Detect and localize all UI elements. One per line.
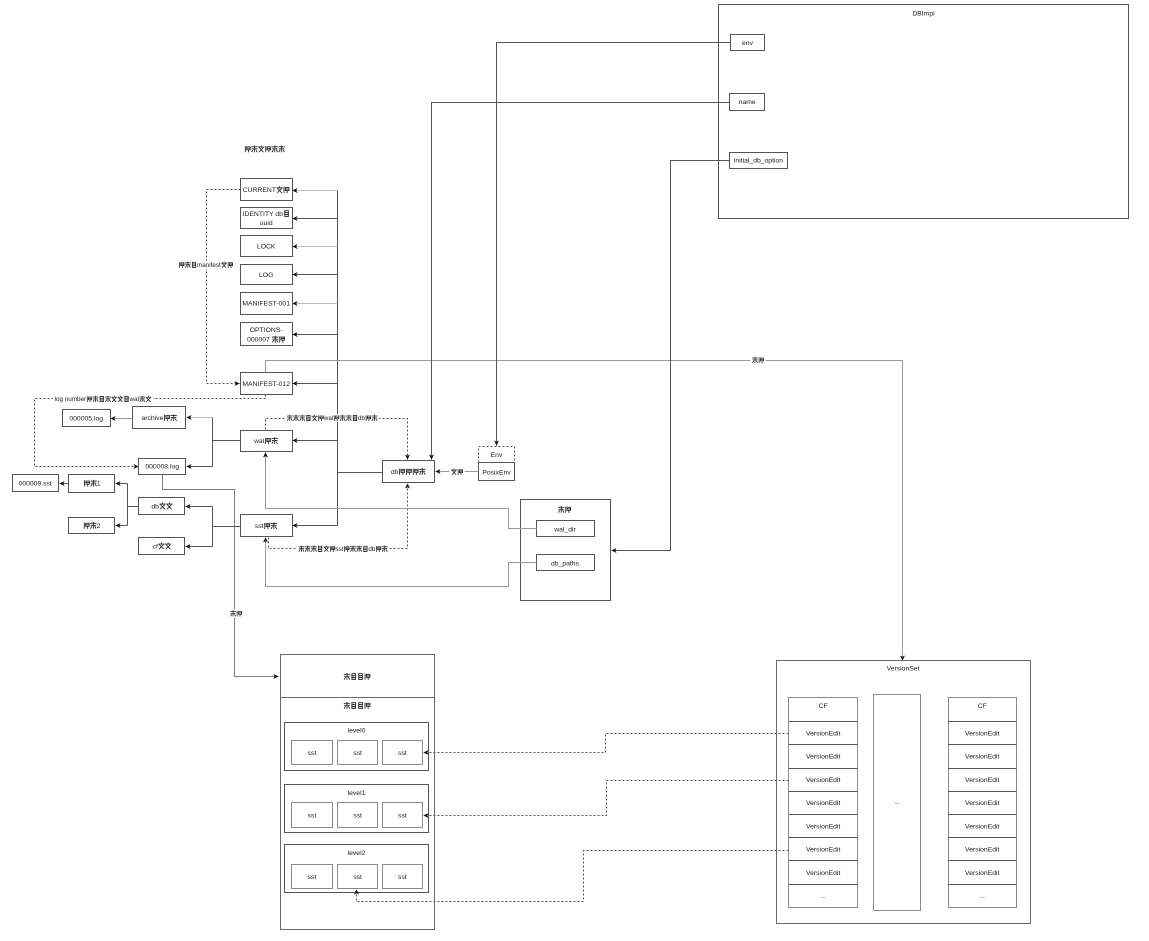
label 内存数据 — [344, 673, 370, 679]
box CF column left — [789, 698, 858, 908]
svg-text:db_paths: db_paths — [551, 560, 580, 567]
wire dashed VersionEdit row6 to level2 sst — [357, 851, 789, 902]
wire db级别 splitter to 目录1 and 目录2 — [116, 484, 139, 526]
wire trunk to db顶层目录 — [338, 472, 383, 474]
svg-text:IDENTITY db: IDENTITY db — [243, 211, 284, 218]
box sst目录 — [241, 515, 293, 537]
box 000009.sst — [13, 475, 59, 492]
svg-text:CURRENT: CURRENT — [243, 187, 276, 194]
svg-text:DBImpl: DBImpl — [912, 11, 935, 18]
wire trunk to IDENTITY — [293, 218, 338, 220]
wire dashed VersionEdit row1 to level0 sst — [424, 734, 789, 753]
box LOCK — [241, 236, 293, 257]
svg-text:db: db — [391, 469, 399, 476]
svg-text:level1: level1 — [348, 790, 366, 797]
svg-text:uuid: uuid — [260, 220, 273, 227]
box VersionSet container — [777, 661, 1031, 924]
box db_paths — [537, 555, 595, 571]
wire trunk to CURRENT文件 — [293, 190, 338, 192]
svg-text:VersionEdit: VersionEdit — [965, 777, 999, 784]
wire trunk to OPTIONS — [293, 334, 338, 336]
svg-text:VersionEdit: VersionEdit — [806, 730, 840, 737]
svg-text:...: ... — [979, 893, 985, 900]
wire 重建 000008.log to 内存数据 — [163, 475, 279, 677]
svg-text:MANIFEST-012: MANIFEST-012 — [242, 381, 290, 388]
box db级别 — [139, 498, 185, 515]
wire archive目录 to 000005.log — [111, 418, 133, 420]
box DBImpl container — [719, 5, 1129, 219]
label 重建 bottom — [228, 610, 243, 618]
box archive目录 — [133, 407, 186, 429]
svg-text:sst: sst — [335, 546, 343, 553]
svg-text:000008.log: 000008.log — [145, 464, 179, 471]
box 目录1 — [69, 475, 115, 493]
wire trunk to MANIFEST-001 — [293, 303, 338, 305]
svg-text:CF: CF — [819, 703, 828, 710]
svg-text:manifest: manifest — [197, 262, 221, 269]
wire wal目录 splitter to archive and 000008.log — [187, 418, 241, 467]
wire trunk to LOCK — [293, 246, 338, 248]
wire dashed MANIFEST-012 to 000008.log — [35, 395, 266, 467]
svg-text:VersionEdit: VersionEdit — [965, 754, 999, 761]
box CURRENT文件 — [241, 179, 293, 201]
wire dashed wal目录 to db顶层目录 — [266, 419, 408, 460]
svg-text:wal: wal — [129, 396, 139, 403]
box 内存数据 container — [281, 655, 435, 930]
svg-text:Env: Env — [491, 452, 503, 459]
wire initial_db_option to 配置 — [612, 161, 730, 551]
svg-text:VersionEdit: VersionEdit — [965, 730, 999, 737]
svg-text:VersionEdit: VersionEdit — [806, 847, 840, 854]
box wal_dir — [537, 521, 595, 537]
svg-text:VersionEdit: VersionEdit — [806, 823, 840, 830]
svg-text:level2: level2 — [348, 850, 366, 857]
svg-text:VersionEdit: VersionEdit — [965, 870, 999, 877]
box middle ... column — [874, 695, 921, 911]
svg-text:env: env — [742, 40, 754, 47]
svg-text:wal_dir: wal_dir — [553, 526, 576, 533]
wire 重建 MANIFEST-012 to VersionSet — [266, 361, 903, 661]
svg-text:sst: sst — [308, 874, 317, 881]
svg-text:PosixEnv: PosixEnv — [482, 469, 511, 476]
svg-text:name: name — [739, 99, 756, 106]
box initial_db_option — [730, 153, 788, 169]
box 000005.log — [63, 410, 111, 427]
svg-text:...: ... — [820, 893, 826, 900]
wire dashed VersionEdit row3 to level1 sst — [424, 781, 789, 816]
svg-text:archive: archive — [141, 415, 163, 422]
label 目录文件情况 title — [245, 146, 284, 152]
svg-text:000005.log: 000005.log — [69, 415, 103, 422]
svg-text:LOCK: LOCK — [257, 244, 276, 251]
wire sst目录 splitter to db级别 and cf级别 — [186, 507, 241, 547]
svg-text:wal: wal — [323, 415, 333, 422]
wire PosixEnv 创建 db顶层目录 — [436, 471, 479, 473]
svg-text:db: db — [368, 546, 376, 553]
svg-text:sst: sst — [398, 750, 407, 757]
box name — [730, 94, 765, 111]
box MANIFEST-001 — [241, 293, 293, 315]
svg-text:sst: sst — [398, 812, 407, 819]
wire trunk to LOG — [293, 274, 338, 276]
box level0 with sst boxes — [285, 723, 429, 771]
svg-text:sst: sst — [308, 812, 317, 819]
svg-text:cf: cf — [153, 543, 158, 550]
svg-text:sst: sst — [353, 874, 362, 881]
box 000008.log — [139, 459, 186, 475]
label 没有单独指定wal目录就用db目录 — [285, 414, 379, 422]
wire wal_dir to wal目录 — [266, 453, 537, 529]
box CF column right — [948, 698, 1017, 908]
wire dashed CURRENT文件 to MANIFEST-012 定位到manifest文件 — [207, 190, 241, 384]
svg-text:VersionEdit: VersionEdit — [806, 870, 840, 877]
label 没有单独指定sst目录就用db目录 — [297, 545, 390, 553]
box level2 with sst boxes — [285, 845, 429, 893]
label 定位到manifest文件 — [177, 261, 235, 269]
svg-text:wal: wal — [253, 438, 265, 445]
svg-text:sst: sst — [353, 812, 362, 819]
box MANIFEST-012 — [241, 373, 293, 395]
svg-text:sst: sst — [398, 874, 407, 881]
wire 目录1 to 000009.sst — [60, 483, 69, 485]
box db顶层目录 — [383, 461, 435, 483]
svg-text:1: 1 — [97, 481, 101, 488]
svg-text:2: 2 — [97, 523, 101, 530]
svg-text:VersionEdit: VersionEdit — [806, 754, 840, 761]
label 创建 — [449, 468, 464, 476]
svg-text:VersionEdit: VersionEdit — [806, 777, 840, 784]
svg-text:initial_db_option: initial_db_option — [734, 158, 783, 165]
box level1 with sst boxes — [285, 785, 429, 833]
svg-text:VersionEdit: VersionEdit — [965, 800, 999, 807]
wire trunk to sst目录 — [293, 525, 338, 527]
svg-text:LOG: LOG — [259, 272, 273, 279]
svg-text:CF: CF — [978, 703, 987, 710]
svg-text:sst: sst — [255, 523, 264, 530]
wire trunk vertical from db top dir — [337, 191, 339, 526]
wire trunk to MANIFEST-012 — [293, 383, 338, 385]
svg-text:VersionEdit: VersionEdit — [965, 847, 999, 854]
svg-text:VersionSet: VersionSet — [887, 666, 920, 673]
label log number定位到要扫描的wal日志 — [53, 395, 153, 403]
svg-text:MANIFEST-001: MANIFEST-001 — [242, 301, 290, 308]
box PosixEnv — [479, 463, 515, 481]
svg-text:VersionEdit: VersionEdit — [965, 823, 999, 830]
svg-text:...: ... — [894, 799, 900, 806]
svg-text:db: db — [358, 415, 366, 422]
box 目录2 — [69, 518, 115, 534]
svg-text:level0: level0 — [348, 727, 366, 734]
box env — [731, 35, 765, 51]
svg-text:000009.sst: 000009.sst — [19, 481, 52, 488]
box OPTIONS-000007配置 — [241, 323, 293, 346]
box 配置 container — [521, 500, 611, 601]
wire db_paths to sst目录 — [266, 538, 537, 587]
box cf级别 — [139, 538, 185, 555]
box IDENTITY db的uuid — [241, 208, 293, 229]
wire dashed sst目录 to db顶层目录 — [269, 484, 408, 549]
wire divider 内存/磁盘 — [281, 697, 435, 699]
box wal目录 — [241, 431, 293, 452]
svg-text:log number: log number — [55, 396, 87, 403]
box Env dashed — [479, 447, 515, 463]
box LOG — [241, 265, 293, 285]
wire env to Env — [497, 43, 731, 446]
wire trunk to wal目录 — [293, 440, 338, 442]
label 重建 top — [750, 356, 765, 364]
svg-text:VersionEdit: VersionEdit — [806, 800, 840, 807]
svg-text:OPTIONS-: OPTIONS- — [250, 327, 283, 334]
svg-text:000007: 000007 — [247, 337, 270, 344]
wire name to db顶层目录 — [432, 103, 730, 460]
label 磁盘数据 — [344, 702, 370, 708]
svg-text:sst: sst — [353, 750, 362, 757]
svg-text:db: db — [151, 503, 159, 510]
svg-text:sst: sst — [308, 750, 317, 757]
